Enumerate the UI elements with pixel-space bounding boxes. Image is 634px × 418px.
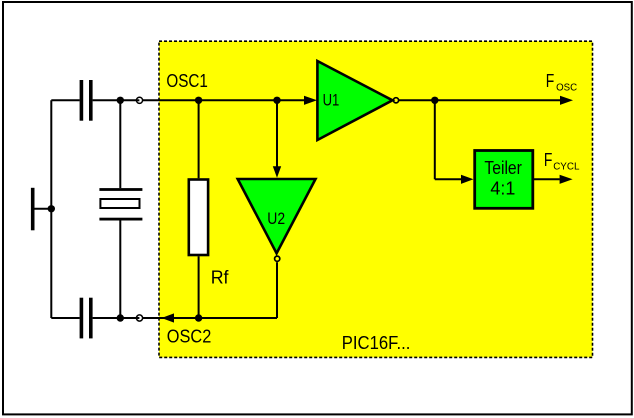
svg-text:U1: U1 [323, 91, 340, 110]
svg-text:OSC2: OSC2 [167, 326, 212, 346]
svg-text:4:1: 4:1 [490, 178, 515, 198]
svg-text:F: F [546, 71, 555, 91]
svg-text:CYCL: CYCL [553, 160, 579, 172]
svg-text:OSC1: OSC1 [166, 71, 208, 91]
svg-text:U2: U2 [267, 209, 285, 228]
svg-text:PIC16F...: PIC16F... [342, 332, 411, 353]
svg-text:Teiler: Teiler [484, 158, 522, 178]
svg-text:F: F [544, 150, 553, 170]
svg-text:OSC: OSC [556, 82, 577, 94]
svg-text:Rf: Rf [211, 267, 230, 287]
